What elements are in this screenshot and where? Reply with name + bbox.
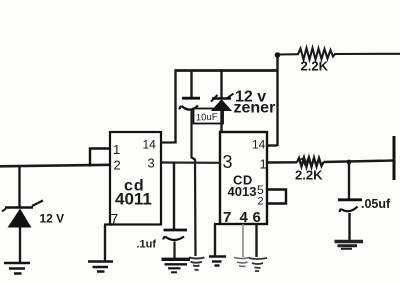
- svg-text:10uF: 10uF: [196, 112, 218, 124]
- svg-text:1: 1: [260, 157, 267, 172]
- svg-text:4011: 4011: [115, 190, 152, 209]
- capacitor C1 10uF: stem from rail: [190, 71, 192, 98]
- svg-text:.1uf: .1uf: [137, 239, 157, 251]
- zener D1: triangle (anode): [9, 210, 31, 228]
- zener D2: stem from rail: [220, 71, 222, 98]
- svg-text:2: 2: [258, 196, 264, 208]
- wire: R2 to terminal: [324, 161, 394, 163]
- ground G1 (below D1): [4, 263, 30, 274]
- wire: C1 lower stem with jog over pin-3 wire: [192, 111, 196, 257]
- wire: zener D1 anode stem from input wire: [18, 166, 20, 208]
- pin loop: pins 1-2 tie bump on U1 left side: [90, 149, 111, 167]
- capacitor C2: curved plate: [163, 237, 184, 241]
- capacitor C1: curved plate: [180, 106, 198, 110]
- svg-text:zener: zener: [234, 100, 276, 117]
- wire: supply vertical drop: [174, 71, 176, 144]
- capacitor C3: straight plate: [338, 198, 362, 201]
- svg-text:3: 3: [148, 156, 155, 171]
- wire: D1 to ground: [19, 227, 21, 264]
- wire: U1 pin 7 to ground: [104, 225, 106, 261]
- ground G2 (U1 pin 7): [88, 262, 113, 272]
- terminal bar at right edge: [393, 136, 396, 180]
- capacitor C2 .1uf: stem from pin-3 wire: [173, 163, 175, 230]
- svg-text:2: 2: [114, 158, 121, 173]
- pin loop: pins 5-2 tie on U2 right side: [267, 190, 286, 204]
- svg-text:6: 6: [253, 209, 261, 226]
- wire: U1 pin 14 to supply vertical: [161, 141, 176, 143]
- svg-text:14: 14: [143, 138, 157, 152]
- wire: U2 pin 4 to ground (light): [242, 224, 244, 257]
- svg-text:12 V: 12 V: [40, 212, 65, 226]
- ground G6 (U2 pin 4, sketchy): [234, 258, 250, 267]
- svg-text:4013: 4013: [228, 184, 257, 199]
- zener D2: triangle: [212, 100, 231, 111]
- op-amp U1: IC cd 4011 box: [110, 132, 161, 225]
- wire: D2 to U2 top edge: [220, 111, 222, 134]
- U2 bottom edge overshoot: [214, 223, 221, 225]
- svg-text:2.2K: 2.2K: [295, 168, 323, 183]
- svg-text:14: 14: [252, 138, 266, 152]
- capacitor C2: straight plate: [164, 229, 188, 232]
- wire: U2 pin 6 to ground: [255, 224, 257, 257]
- capacitor C3: curved plate: [340, 207, 358, 213]
- wire: U2 pin 14 stub: [267, 144, 278, 146]
- node B: junction dot at C3: [347, 160, 352, 165]
- wire: top supply rail: [175, 69, 278, 72]
- resistor R1 2.2K with leads: [279, 48, 400, 60]
- resistor R2 2.2K: [297, 158, 324, 168]
- wire: C2 to ground: [173, 242, 175, 259]
- IC U2: CD 4013 box: [220, 132, 267, 224]
- svg-text:7: 7: [111, 211, 119, 227]
- ground G8 (C3, smudged): [335, 242, 364, 249]
- ground G3 (C2): [162, 259, 191, 272]
- wire: U1 pin 3 to U2 pin 3: [161, 161, 220, 164]
- svg-text:3: 3: [223, 152, 233, 172]
- ground G7 (U2 pin 6, sketchy): [249, 258, 267, 271]
- svg-text:7: 7: [223, 209, 231, 226]
- capacitor C3 .05uf: stem from wire: [348, 162, 350, 199]
- U1 bottom edge overshoot: [104, 223, 112, 225]
- zener D2 12v: cathode bar with bent ends: [211, 94, 234, 102]
- wire: U2 pin 1 lead: [267, 161, 297, 164]
- svg-text:1: 1: [113, 142, 120, 157]
- ground G4 (C1 branch, sketchy): [189, 258, 205, 270]
- node A: junction dot top right: [275, 52, 281, 58]
- wire: C3 to ground: [348, 213, 350, 241]
- svg-text:.05uf: .05uf: [361, 197, 391, 211]
- capacitor C1: straight plate: [182, 97, 200, 100]
- wire: vertical from junction down to U2 pin 14: [276, 55, 278, 146]
- svg-text:4: 4: [240, 209, 249, 226]
- wire: U2 pin 7 to ground: [214, 224, 216, 256]
- label box: 10uF: [194, 109, 224, 124]
- zener D1 12V: cathode bar with bent ends: [2, 201, 43, 212]
- svg-text:2.2K: 2.2K: [301, 59, 329, 74]
- ground G5 (U2 pin 7): [209, 257, 226, 266]
- wire: main input wire from left edge: [0, 165, 110, 167]
